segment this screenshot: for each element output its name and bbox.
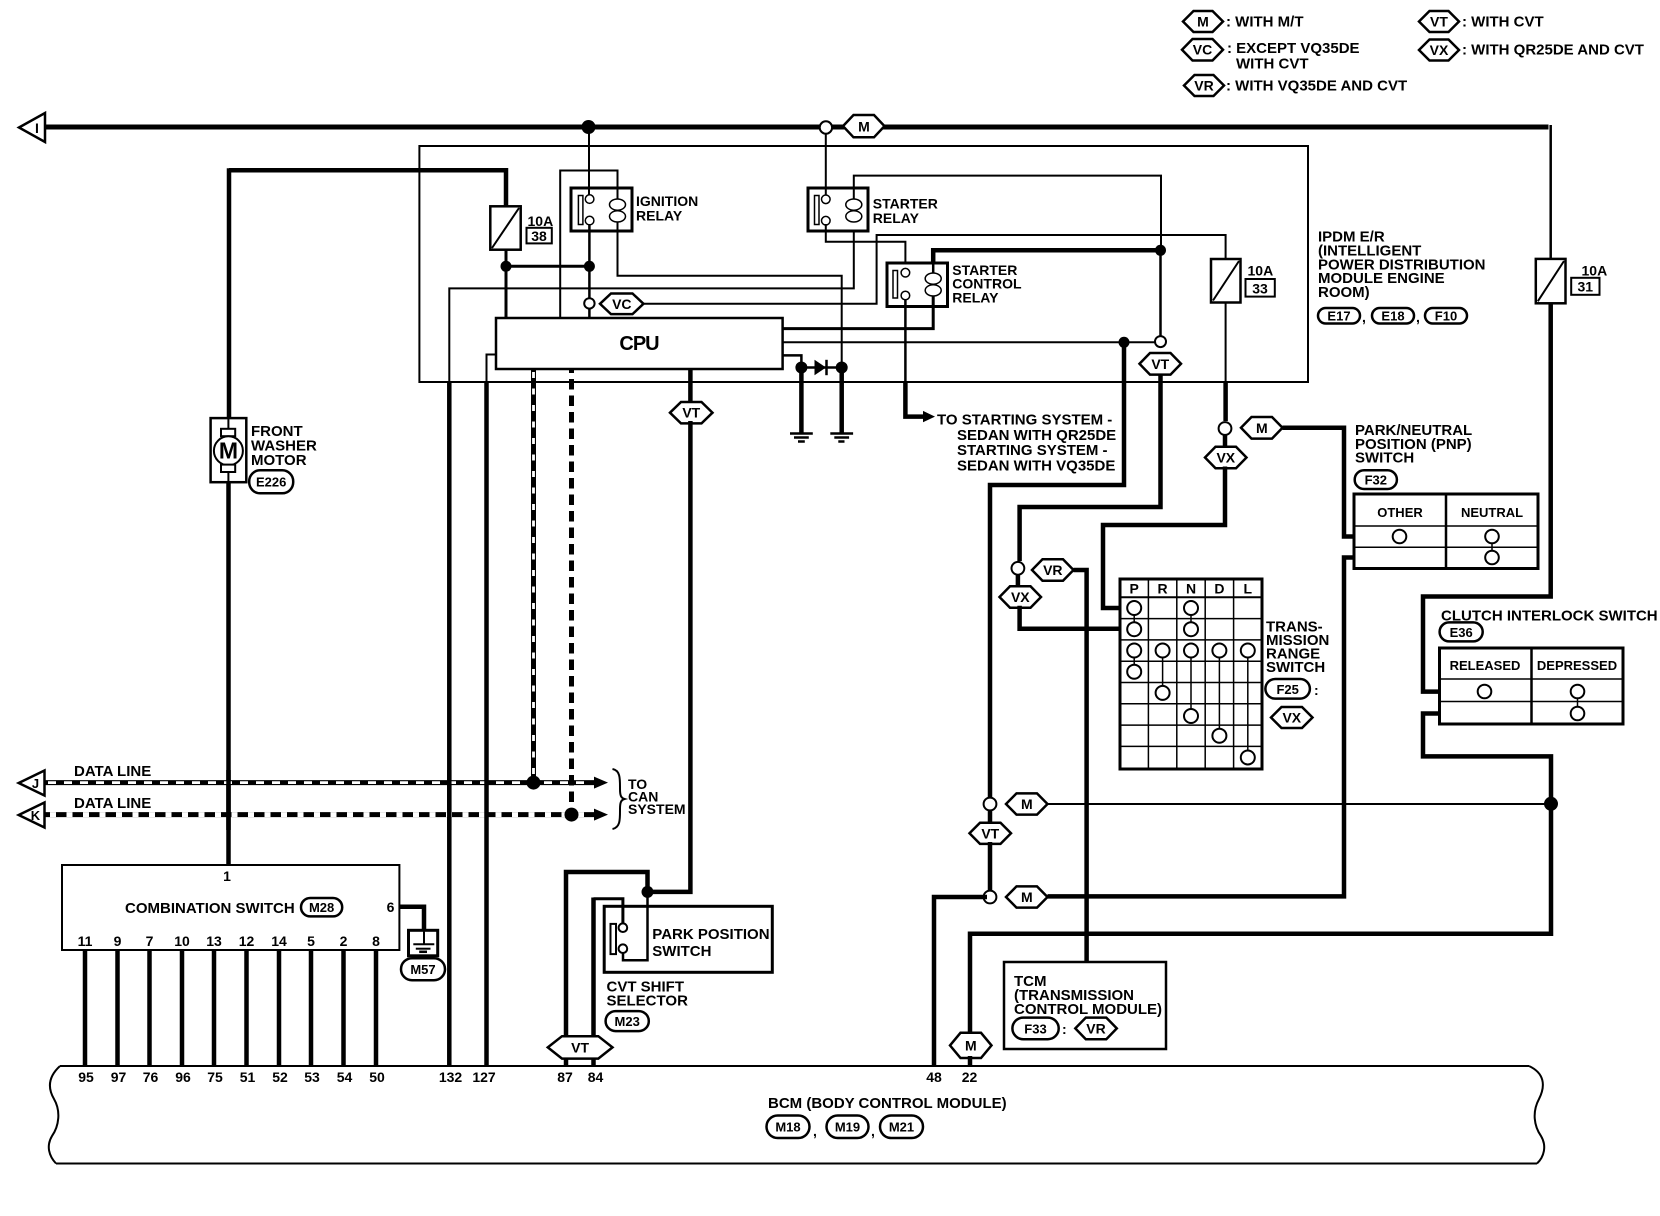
svg-text:R: R [1158, 581, 1168, 597]
label TO STARTING SYSTEM block [937, 412, 1116, 475]
svg-text:,: , [1416, 309, 1420, 325]
svg-text:BCM (BODY CONTROL MODULE): BCM (BODY CONTROL MODULE) [768, 1095, 1007, 1112]
svg-text:97: 97 [111, 1069, 127, 1085]
wire comb pin 13 to BCM 75 [212, 950, 217, 1066]
wire TRS feed dot down to M/VT chain [990, 342, 1124, 798]
wire upper contact to BCM pin 84 [594, 899, 623, 923]
svg-text:33: 33 [1252, 281, 1268, 297]
svg-text:M: M [219, 438, 238, 464]
wire CAN line from CPU to K [569, 369, 574, 813]
svg-text:8: 8 [372, 933, 380, 949]
wire VX hexagon to TRS row1 [1103, 467, 1225, 609]
label PARK/NEUTRAL POSITION (PNP) SWITCH [1355, 422, 1472, 467]
oval M21 [880, 1116, 923, 1139]
hexagon VR in TCM box [1075, 1018, 1117, 1040]
TCM box [1004, 962, 1166, 1049]
svg-text:: WITH QR25DE AND CVT: : WITH QR25DE AND CVT [1462, 42, 1644, 59]
wire diode cathode to ground [839, 368, 844, 433]
wire VT hexagon down to park switch node [650, 421, 690, 892]
svg-text:RELAY: RELAY [952, 290, 999, 306]
clutch interlock table [1440, 648, 1624, 724]
svg-text:SEDAN WITH VQ35DE: SEDAN WITH VQ35DE [957, 458, 1115, 475]
wire comb pin 11 to BCM 95 [83, 950, 88, 1066]
hexagon VR to TCM [1032, 559, 1074, 581]
svg-text:CONTROL MODULE): CONTROL MODULE) [1014, 1001, 1162, 1018]
wire fuse 31 to clutch interlock row1 [1423, 303, 1551, 691]
starter relay [808, 188, 868, 231]
svg-text:SYSTEM: SYSTEM [628, 801, 686, 817]
wire fuse 33 down inside box [1225, 303, 1227, 383]
wire main feed after M hexagon to right corner, down to fuse 31 [882, 125, 1549, 130]
svg-text:1: 1 [223, 868, 231, 884]
svg-text:M: M [965, 1037, 977, 1053]
wire CPU to VT hexagon (CVT shift selector feed) [688, 369, 693, 404]
svg-text:13: 13 [206, 933, 222, 949]
TRS contacts column P [1127, 601, 1141, 679]
svg-text:VT: VT [981, 825, 999, 841]
wire starter control coil bottom to CPU right [783, 296, 934, 329]
wire comb pin 8 to BCM 50 [374, 950, 379, 1066]
hexagon VT on CVT selector feed [670, 402, 713, 423]
svg-text:10: 10 [174, 933, 190, 949]
svg-text:,: , [813, 1123, 817, 1139]
wire circle down through VT hexagon [988, 810, 993, 825]
junction dot diode cathode [836, 362, 848, 374]
svg-text:2: 2 [340, 933, 348, 949]
svg-text:VX: VX [1011, 589, 1030, 605]
svg-text:VC: VC [612, 296, 631, 312]
svg-text:RELEASED: RELEASED [1450, 658, 1521, 673]
svg-text:VC: VC [1193, 42, 1212, 58]
fuse 38 [490, 206, 520, 249]
svg-text:132: 132 [439, 1069, 463, 1085]
wire comb pin 5 to BCM 53 [309, 950, 314, 1066]
fuse 31 [1536, 259, 1566, 303]
svg-text:P: P [1130, 581, 1139, 597]
svg-text:14: 14 [271, 933, 287, 949]
wire M hexagon to PNP row1 [1283, 428, 1355, 537]
TRS contacts column D [1212, 644, 1226, 743]
TRS contacts column R [1156, 644, 1170, 700]
svg-text:6: 6 [387, 899, 395, 915]
junction dot clutch/PNP common [1544, 797, 1558, 811]
hexagon VT below circle 341 [1140, 353, 1182, 375]
wire starter control coil top to node 250 [932, 263, 935, 274]
junction dot CAN J [527, 776, 541, 790]
wire washer motor to combination switch pin 1 [226, 482, 231, 865]
TRS contacts column L [1241, 644, 1255, 765]
svg-text:N: N [1186, 581, 1196, 597]
svg-text:M21: M21 [889, 1120, 914, 1135]
label TRANSMISSION RANGE SWITCH [1266, 619, 1329, 676]
wire comb pin 14 to BCM 52 [277, 950, 282, 1066]
wire CAN line from CPU to J [531, 369, 536, 781]
wire data line K [45, 812, 595, 817]
label 33 box [1246, 279, 1275, 297]
connector circle VR/VX node [1012, 562, 1025, 575]
svg-text:96: 96 [175, 1069, 191, 1085]
svg-text:F33: F33 [1024, 1022, 1046, 1037]
svg-text:VR: VR [1194, 78, 1213, 94]
wire comb pin 10 to BCM 96 [180, 950, 185, 1066]
junction dot fuse38 [501, 261, 512, 272]
oval M19 [827, 1116, 869, 1139]
hexagon M to PNP row2 return [1006, 886, 1048, 907]
wire M hexagon to BCM pin 22 [968, 1056, 973, 1066]
TRS contacts column N [1184, 601, 1198, 723]
wire to starting system arrow [905, 381, 923, 417]
svg-text:DATA LINE: DATA LINE [74, 763, 151, 780]
wire starter control contact bottom to starting-system arrow [904, 299, 907, 382]
wire ignition contact bottom to VC node [588, 224, 591, 298]
svg-text:: WITH M/T: : WITH M/T [1226, 14, 1303, 31]
wire VT hexagon to lower circle [988, 842, 993, 891]
svg-text:ROOM): ROOM) [1318, 284, 1370, 301]
junction dot node 250 [1155, 245, 1166, 256]
label IPDM E/R block [1318, 229, 1486, 302]
IPDM E/R outer box [419, 146, 1308, 382]
svg-text:VT: VT [571, 1039, 589, 1055]
svg-text:F32: F32 [1365, 473, 1387, 488]
svg-text:M: M [1021, 796, 1033, 812]
wire starter coil bottom to BCM pin 132 [449, 222, 854, 383]
wire comb pin 12 to BCM 51 [244, 950, 249, 1066]
wire BCM pin 132 (below IPDM) [447, 381, 452, 1066]
ground (diode cathode) [830, 434, 853, 442]
svg-text:7: 7 [146, 933, 154, 949]
wire main line to ignition relay contact [588, 130, 590, 195]
connector circle M/VT node lower [984, 891, 997, 904]
svg-text:75: 75 [207, 1069, 223, 1085]
svg-text:TO STARTING SYSTEM -: TO STARTING SYSTEM - [937, 412, 1112, 429]
wire starter contact bottom to starter control relay contact [826, 224, 906, 269]
wire diode anode to ground [799, 368, 804, 433]
brace TO CAN SYSTEM [613, 769, 625, 829]
ground box M57 [409, 930, 438, 956]
wire VX hexagon to TRS row2 [1020, 606, 1120, 629]
svg-text:M: M [1197, 14, 1209, 30]
wire ignition coil bottom to diode node [618, 222, 842, 364]
PNP switch table [1354, 494, 1538, 569]
connector triangle I [19, 113, 45, 142]
wire CPU left stub to BCM pin 127 [487, 355, 497, 383]
hexagon M on main feed [843, 115, 885, 137]
svg-text:,: , [871, 1123, 875, 1139]
svg-text:DEPRESSED: DEPRESSED [1537, 658, 1617, 673]
wire BCM pin 127 below IPDM [484, 381, 489, 1066]
svg-text:M28: M28 [309, 900, 334, 915]
junction dot diode anode [795, 362, 807, 374]
wire BCM pin 84 [591, 898, 596, 1067]
svg-text:52: 52 [272, 1069, 288, 1085]
fuse 33 [1211, 259, 1241, 303]
wire BCM pin 132 crossing data lines [447, 770, 452, 830]
oval E17 [1318, 308, 1360, 324]
connector circle M/VT node upper [984, 798, 997, 811]
label 38 box [527, 228, 552, 244]
svg-text:DATA LINE: DATA LINE [74, 795, 151, 812]
svg-text:10A: 10A [528, 213, 554, 229]
svg-text::: : [1062, 1021, 1067, 1037]
svg-text:54: 54 [337, 1069, 353, 1085]
svg-text:MOTOR: MOTOR [251, 452, 307, 469]
clutch contact RELEASED row1 [1478, 685, 1492, 699]
svg-text:48: 48 [926, 1069, 942, 1085]
junction dot CAN K [565, 808, 579, 822]
junction dot ignition feed [582, 120, 596, 134]
wire data line J [45, 780, 595, 785]
svg-text:CPU: CPU [619, 333, 659, 355]
svg-text:M19: M19 [835, 1120, 860, 1135]
wire circle to VX hexagon [1223, 435, 1228, 449]
oval E226 [249, 470, 293, 493]
starter control relay [887, 263, 948, 307]
wire VR hexagon to TCM box [1074, 570, 1087, 962]
wire BCM pin 87 up and over to park switch node [566, 872, 648, 1066]
oval E18 [1372, 308, 1414, 324]
diode D1 [801, 360, 841, 375]
svg-text:38: 38 [531, 228, 547, 244]
ignition relay [571, 188, 632, 231]
park position switch contacts [611, 923, 628, 954]
hexagon VT mid chain [970, 823, 1012, 844]
arrowhead data line K [594, 809, 608, 821]
svg-text:M23: M23 [615, 1014, 640, 1029]
wire park node down to lower contact [623, 894, 648, 960]
svg-text:E226: E226 [256, 474, 286, 489]
wire comb pin 9 to BCM 97 [115, 950, 120, 1066]
svg-text:12: 12 [239, 933, 255, 949]
svg-text:50: 50 [369, 1069, 385, 1085]
svg-text:L: L [1244, 581, 1253, 597]
combination switch box M28 [62, 865, 399, 950]
svg-text:5: 5 [307, 933, 315, 949]
BCM strip [49, 1066, 1544, 1164]
svg-text:53: 53 [304, 1069, 320, 1085]
hexagon VC [600, 294, 644, 315]
svg-text:: EXCEPT VQ35DE: : EXCEPT VQ35DE [1227, 40, 1360, 57]
park position switch box [604, 906, 772, 972]
svg-text:D: D [1214, 581, 1224, 597]
connector circle M/VX node [1219, 422, 1232, 435]
hexagon M on pin 22 wire [950, 1033, 992, 1058]
hexagon VX below F25 [1271, 707, 1313, 728]
svg-text:76: 76 [143, 1069, 159, 1085]
wire starter coil top to node 250 [854, 176, 1161, 251]
svg-text:STARTING SYSTEM -: STARTING SYSTEM - [957, 442, 1108, 459]
oval E36 [1440, 622, 1483, 641]
svg-text:E17: E17 [1327, 309, 1350, 324]
ground (diode anode) [790, 434, 813, 442]
legend hexagon VT [1419, 11, 1459, 32]
svg-text:RELAY: RELAY [636, 208, 683, 224]
legend hexagon M [1183, 11, 1223, 32]
wire VC to fuse 33 [644, 235, 1226, 304]
svg-text:VR: VR [1043, 562, 1062, 578]
svg-text:9: 9 [114, 933, 122, 949]
clutch contacts DEPRESSED linked [1571, 685, 1585, 721]
wire washer feed from corner to fuse 38 [229, 170, 506, 208]
wire comb pin 2 to BCM 54 [341, 950, 346, 1066]
wire washer motor feed down [227, 168, 232, 419]
svg-text:VT: VT [1430, 14, 1448, 30]
connector triangle J [19, 771, 45, 796]
svg-text:VR: VR [1086, 1020, 1105, 1036]
wire CPU right to VT connector circle [783, 341, 1155, 343]
hexagon VX below M/VX node [1205, 447, 1247, 469]
svg-text:I: I [35, 120, 39, 136]
svg-text:M18: M18 [775, 1120, 800, 1135]
svg-text:,: , [1362, 309, 1366, 325]
svg-text:SELECTOR: SELECTOR [607, 993, 689, 1010]
svg-text:PARK POSITION: PARK POSITION [652, 926, 769, 943]
svg-text:M: M [1021, 889, 1033, 905]
svg-text:M57: M57 [410, 962, 435, 977]
junction dot park switch node [642, 886, 654, 898]
wire VR/VX node down to VX hexagon [1016, 575, 1021, 589]
wire washer feed crossing data lines [226, 770, 231, 830]
svg-text:RELAY: RELAY [873, 210, 920, 226]
svg-text:SWITCH: SWITCH [652, 943, 711, 960]
wire clutch row2 to junction dot chain [1423, 714, 1551, 802]
wire junction bar between fuse38 wire and ignition relay wire [506, 265, 589, 268]
svg-text:SWITCH: SWITCH [1355, 450, 1414, 467]
oval M28 [301, 898, 342, 916]
legend hexagon VC [1182, 39, 1223, 61]
oval M18 [767, 1116, 810, 1139]
svg-text:VT: VT [682, 405, 700, 421]
front washer motor M1 [211, 418, 247, 482]
connector circle starter feed [820, 121, 832, 133]
svg-text:95: 95 [78, 1069, 94, 1085]
wire VT chain from circle 1160 down to VR/VX node [1020, 372, 1161, 561]
oval F25 [1265, 679, 1310, 699]
svg-text:127: 127 [472, 1069, 496, 1085]
svg-text:E36: E36 [1450, 625, 1473, 640]
wire main feed after connector circle [832, 125, 845, 130]
svg-text:22: 22 [962, 1069, 978, 1085]
svg-text:NEUTRAL: NEUTRAL [1461, 505, 1523, 520]
oval F33 [1012, 1018, 1058, 1040]
CPU box [496, 318, 783, 369]
wire lower circle to BCM pin 48 [934, 897, 987, 1066]
wire comb pin 6 to ground M57 [399, 907, 424, 931]
svg-text:VX: VX [1216, 450, 1235, 466]
wire ignition coil top to CPU [560, 171, 617, 319]
oval M57 [401, 958, 445, 980]
arrowhead to starting system [923, 411, 935, 422]
svg-text:SWITCH: SWITCH [1266, 659, 1325, 676]
oval F10 [1425, 308, 1467, 324]
svg-text:10A: 10A [1582, 263, 1608, 279]
connector circle VT node at 341 [1155, 336, 1166, 347]
wire down to fuse 31 [1549, 125, 1552, 259]
junction dot TRS feed [1119, 337, 1130, 348]
junction dot ignition contact wire [584, 261, 595, 272]
svg-text:M: M [858, 118, 870, 134]
wire starter control coil top to node 250 [933, 250, 1158, 263]
svg-text:WITH CVT: WITH CVT [1236, 56, 1309, 73]
svg-text:F10: F10 [1435, 309, 1457, 324]
svg-text:VT: VT [1151, 356, 1169, 372]
svg-text:J: J [32, 776, 39, 791]
wire fuse 38 to CPU with junction [505, 250, 508, 318]
arrowhead data line J [594, 777, 608, 789]
wire M hexagon to clutch junction dot [1048, 803, 1552, 805]
label 31 box [1571, 278, 1599, 295]
wire main battery feed horizontal [45, 125, 820, 130]
connector triangle K [19, 803, 45, 828]
svg-text:VX: VX [1282, 710, 1301, 726]
legend hexagon VR [1184, 75, 1224, 96]
wire CPU stub to diode left [783, 355, 802, 363]
TRANSMISSION RANGE SWITCH table F25 [1120, 579, 1262, 769]
connector circle VC [584, 298, 594, 308]
svg-text:K: K [31, 808, 41, 823]
wire VC node to CPU [588, 309, 591, 318]
svg-text:: WITH CVT: : WITH CVT [1462, 14, 1544, 31]
oval F32 [1355, 470, 1397, 489]
PNP contacts NEUTRAL linked [1485, 530, 1499, 565]
svg-text:87: 87 [557, 1069, 573, 1085]
svg-text:31: 31 [1578, 279, 1594, 295]
svg-text:11: 11 [78, 933, 93, 949]
wire comb pin 7 to BCM 76 [147, 950, 152, 1066]
svg-text::: : [1314, 682, 1319, 698]
svg-text:84: 84 [588, 1069, 604, 1085]
hexagon M to PNP common (row with dot at 1551) [1006, 793, 1048, 814]
svg-text:: WITH VQ35DE AND CVT: : WITH VQ35DE AND CVT [1226, 78, 1407, 95]
svg-text:51: 51 [240, 1069, 256, 1085]
hexagon VX to TRS row2 [1000, 586, 1042, 607]
svg-text:OTHER: OTHER [1377, 505, 1423, 520]
wire fuse 33 below IPDM to connector circle [1223, 381, 1228, 421]
svg-text:E18: E18 [1381, 309, 1404, 324]
wire M hexagon row2 return to PNP vertical [1048, 558, 1355, 897]
svg-text:M: M [1256, 420, 1268, 436]
svg-text:10A: 10A [1248, 263, 1274, 279]
svg-text:COMBINATION SWITCH: COMBINATION SWITCH [125, 900, 295, 917]
hexagon M to PNP switch [1241, 417, 1283, 439]
hexagon VT over pins 87/84 [548, 1036, 613, 1058]
PNP contact OTHER row1 [1393, 530, 1407, 544]
oval M23 [606, 1011, 649, 1031]
wire clutch row2 chain to BCM pin 22 [970, 804, 1551, 1034]
svg-text:VX: VX [1430, 42, 1449, 58]
wire node 250 down to VT circle [1159, 250, 1162, 336]
legend hexagon VX [1419, 40, 1459, 61]
wire main line circle to starter relay contact [825, 134, 827, 195]
svg-text:F25: F25 [1276, 682, 1298, 697]
